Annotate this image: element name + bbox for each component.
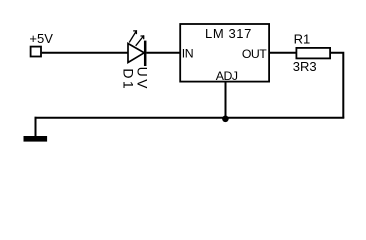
wire resistor to right corner and down: [331, 53, 344, 118]
LED arrow 1: [129, 30, 137, 42]
svg-text:+5V: +5V: [29, 31, 53, 46]
terminal +5V: [31, 47, 41, 57]
junction dot ADJ/bottom rail: [222, 116, 229, 123]
resistor R1 body: [296, 48, 330, 59]
LED arrow 2: [136, 35, 145, 45]
wire down to ground: [35, 117, 37, 137]
svg-text:UVD1: UVD1: [120, 67, 150, 92]
svg-text:R1: R1: [294, 32, 311, 47]
svg-text:IN: IN: [182, 47, 194, 61]
svg-text:ADJ: ADJ: [216, 69, 238, 83]
svg-text:LM 317: LM 317: [205, 26, 252, 41]
wire ADJ pin down: [225, 82, 227, 119]
wire bottom rail: [35, 117, 345, 119]
wire LED cathode to IN: [147, 52, 181, 54]
op-amp-box regulator U1 LM317: [180, 24, 269, 82]
svg-text:OUT: OUT: [242, 47, 267, 61]
LED D1 triangle: [128, 44, 144, 63]
LED D1 cathode bar: [144, 41, 147, 66]
ground bar: [24, 136, 48, 142]
svg-text:3R3: 3R3: [293, 59, 317, 74]
wire OUT to resistor: [269, 52, 296, 54]
wire terminal to LED anode: [42, 52, 128, 54]
